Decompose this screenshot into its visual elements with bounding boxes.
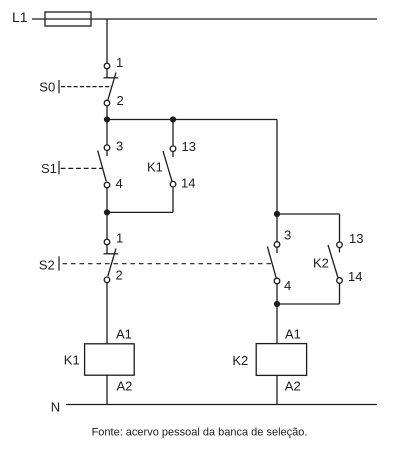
svg-text:13: 13 bbox=[182, 139, 196, 154]
svg-text:L1: L1 bbox=[12, 9, 28, 25]
svg-text:K2: K2 bbox=[313, 255, 329, 270]
svg-text:1: 1 bbox=[116, 230, 123, 245]
svg-text:K1: K1 bbox=[147, 159, 163, 174]
svg-text:Fonte: acervo pessoal da banca: Fonte: acervo pessoal da banca de seleçã… bbox=[92, 426, 308, 438]
svg-text:4: 4 bbox=[116, 176, 123, 191]
svg-text:1: 1 bbox=[116, 55, 123, 70]
svg-text:3: 3 bbox=[116, 139, 123, 154]
svg-text:S0: S0 bbox=[39, 80, 55, 95]
svg-text:N: N bbox=[51, 399, 60, 414]
svg-text:2: 2 bbox=[117, 93, 124, 108]
svg-text:A2: A2 bbox=[285, 379, 301, 394]
svg-text:14: 14 bbox=[348, 269, 362, 284]
svg-text:A1: A1 bbox=[285, 327, 301, 342]
svg-text:4: 4 bbox=[284, 278, 291, 293]
svg-text:A2: A2 bbox=[117, 379, 133, 394]
svg-text:2: 2 bbox=[116, 268, 123, 283]
svg-text:14: 14 bbox=[181, 175, 195, 190]
svg-text:K1: K1 bbox=[64, 353, 80, 368]
svg-text:A1: A1 bbox=[116, 326, 132, 341]
svg-text:S2: S2 bbox=[39, 258, 55, 273]
svg-text:3: 3 bbox=[284, 228, 291, 243]
svg-text:13: 13 bbox=[349, 231, 363, 246]
svg-text:K2: K2 bbox=[232, 353, 248, 368]
svg-text:S1: S1 bbox=[41, 161, 57, 176]
